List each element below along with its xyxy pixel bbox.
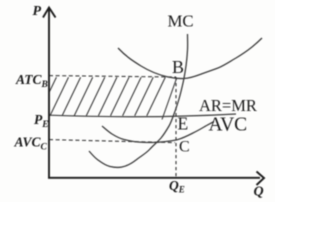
MC curve [89, 34, 188, 167]
svg-text:Q: Q [254, 185, 264, 200]
svg-text:AR=MR: AR=MR [199, 96, 257, 115]
svg-text:B: B [172, 57, 184, 77]
last hatch stroke reaching B junction [162, 79, 177, 120]
hatched loss rectangle [38, 77, 165, 116]
x-axis [48, 177, 260, 179]
AVC curve [102, 122, 214, 143]
dashed horizontal line ATC_B level [49, 76, 176, 77]
y-axis arrowhead [43, 8, 56, 18]
svg-text:AVC: AVC [209, 115, 248, 136]
dashed vertical line at Q_E [175, 77, 177, 177]
y-axis [48, 10, 50, 179]
svg-text:P: P [33, 4, 42, 19]
dashed horizontal line AVC_C level [49, 140, 175, 143]
svg-text:C: C [179, 139, 190, 156]
x-axis arrowhead [257, 172, 265, 186]
svg-text:E: E [178, 114, 189, 134]
svg-text:MC: MC [168, 12, 194, 31]
AR=MR horizontal price line [49, 114, 236, 117]
ATC curve [118, 38, 262, 79]
